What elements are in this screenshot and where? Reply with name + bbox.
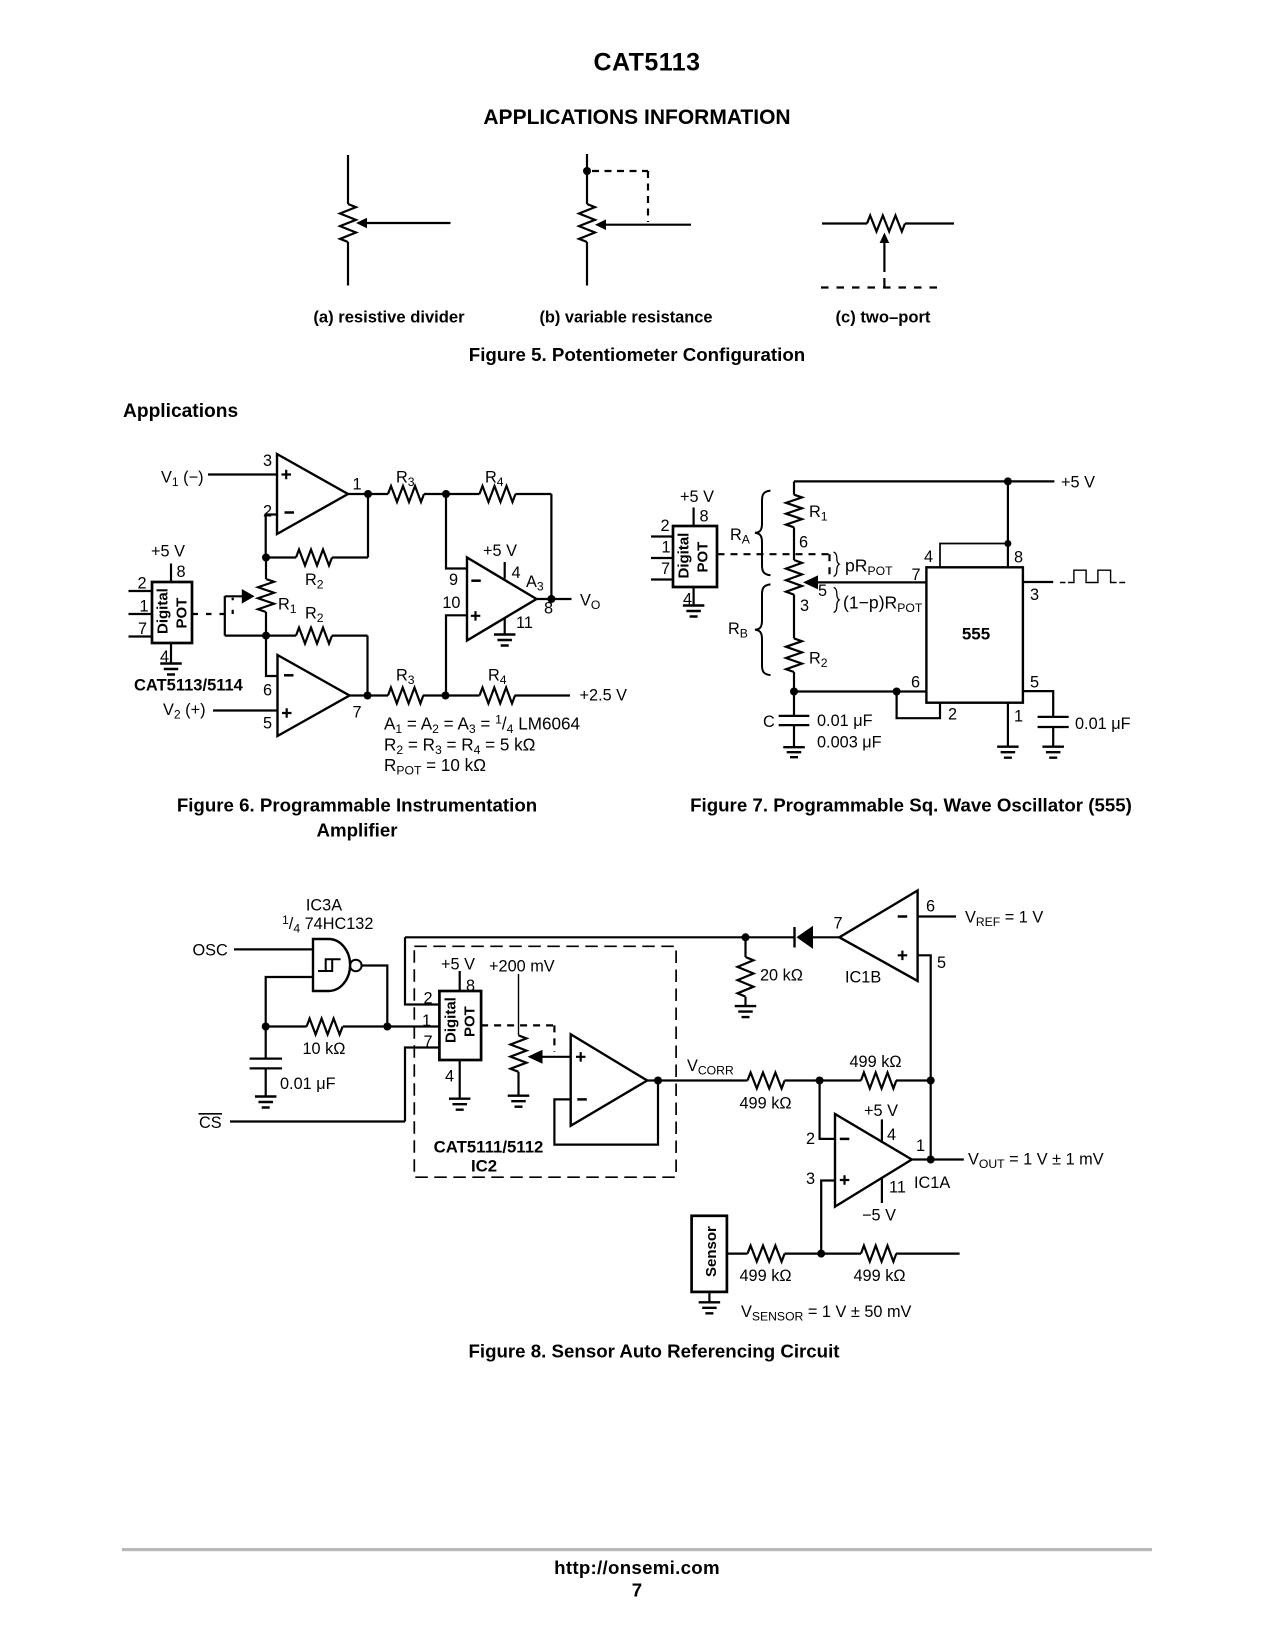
- ground below A3: [494, 635, 516, 646]
- op-amp IC2: [571, 1034, 648, 1126]
- svg-text:+2.5 V: +2.5 V: [580, 687, 628, 705]
- overline CS: [199, 1113, 223, 1115]
- svg-text:V1 (−): V1 (−): [161, 469, 204, 490]
- svg-text:3: 3: [263, 452, 272, 470]
- wire +200mV pot to ground: [517, 1072, 519, 1096]
- svg-text:11: 11: [516, 614, 533, 632]
- svg-text:5: 5: [1030, 674, 1039, 692]
- op-amp A3 minus input symbol: [471, 579, 481, 582]
- svg-text:Figure 6. Programmable Instrum: Figure 6. Programmable Instrumentation: [177, 795, 537, 816]
- resistor 10k body: [307, 1019, 343, 1035]
- wire R2 to bottom node: [793, 672, 795, 692]
- wire (b) dashed feedback horizontal: [592, 170, 648, 172]
- svg-text:5: 5: [937, 954, 946, 972]
- op-amp IC2 minus input symbol: [577, 1098, 587, 1101]
- svg-text:499 kΩ: 499 kΩ: [854, 1267, 906, 1285]
- svg-text:R1: R1: [809, 503, 828, 524]
- digital pot U2 pin 4 lead: [692, 587, 694, 606]
- bracket pRPOT: [834, 552, 840, 577]
- svg-text:2: 2: [806, 1130, 815, 1148]
- svg-text:7: 7: [912, 566, 921, 584]
- op-amp A1: [277, 454, 348, 534]
- digital pot U2 pin 2 stub: [651, 535, 673, 537]
- digital pot U1 pin 7 stub: [129, 635, 153, 637]
- svg-text:APPLICATIONS INFORMATION: APPLICATIONS INFORMATION: [483, 106, 790, 129]
- resistor R1 body: [258, 579, 274, 612]
- ground below digital pot U2: [683, 606, 705, 617]
- svg-text:Figure 7. Programmable Sq. Wav: Figure 7. Programmable Sq. Wave Oscillat…: [690, 795, 1132, 816]
- wire RPOT to R2: [793, 595, 795, 639]
- wire (a) bottom lead: [347, 242, 349, 286]
- wire wiper bracket top: [225, 595, 243, 597]
- svg-text:1: 1: [353, 476, 362, 494]
- wire A3 inverting feed: [446, 494, 467, 569]
- wire node to R4 bottom: [446, 694, 480, 696]
- diode cathode bar: [793, 927, 795, 948]
- svg-text:0.01 μF: 0.01 μF: [817, 712, 873, 730]
- digital pot U2 pin 7 stub: [651, 578, 673, 580]
- resistor R4 bottom body: [480, 688, 516, 704]
- svg-text:+5 V: +5 V: [483, 542, 517, 560]
- ground below filter cap: [255, 1097, 277, 1108]
- svg-text:0.01 μF: 0.01 μF: [280, 1075, 336, 1093]
- wire R1 to wiper node: [793, 527, 795, 560]
- svg-text:1: 1: [140, 598, 149, 616]
- svg-text:3: 3: [806, 1170, 815, 1188]
- resistor 499k sensor feedback body: [861, 1246, 896, 1262]
- arrowhead wiper into RPOT: [803, 575, 818, 589]
- wire feedback row right: [343, 1025, 440, 1027]
- svg-text:+5 V: +5 V: [864, 1102, 898, 1120]
- wire (a) top lead: [347, 155, 349, 204]
- wire 555 pin 1 ground lead: [1007, 703, 1009, 747]
- svg-text:IC1B: IC1B: [845, 969, 881, 987]
- svg-text:RA: RA: [730, 526, 751, 547]
- svg-text:6: 6: [263, 682, 272, 700]
- op-amp IC1A pin 11 lead: [881, 1178, 883, 1203]
- svg-text:POT: POT: [462, 1006, 479, 1037]
- svg-text:7: 7: [423, 1033, 432, 1051]
- svg-text:7: 7: [661, 560, 670, 578]
- svg-text:CAT5111/5112: CAT5111/5112: [434, 1138, 544, 1157]
- wire R4 feedback down to A3 output: [550, 494, 552, 599]
- svg-text:6: 6: [799, 534, 808, 552]
- op-amp IC1B minus input symbol: [898, 915, 908, 918]
- svg-text:5: 5: [263, 715, 272, 733]
- svg-text:A1 = A2 = A3 = 1/4 LM6064: A1 = A2 = A3 = 1/4 LM6064: [384, 713, 580, 737]
- node A3 output dot: [547, 595, 555, 603]
- wire wiper to IC2 opamp: [541, 1056, 571, 1058]
- svg-text:RB: RB: [728, 620, 748, 641]
- op-amp A3 pin 4 supply lead: [504, 562, 506, 579]
- resistor (b) potentiometer body: [579, 204, 595, 242]
- svg-text:555: 555: [962, 625, 990, 644]
- svg-text:Sensor: Sensor: [703, 1226, 720, 1277]
- ground below timing cap: [783, 747, 805, 757]
- svg-text:499 kΩ: 499 kΩ: [740, 1095, 792, 1113]
- op-amp IC1A minus input symbol: [840, 1138, 850, 1141]
- wire 555 pin 6: [794, 690, 926, 692]
- ground below 20k: [735, 1006, 757, 1017]
- svg-text:Amplifier: Amplifier: [317, 820, 398, 841]
- wire IC1B pin 5: [918, 955, 931, 1080]
- wire wiper bracket bottom: [225, 634, 266, 636]
- node R1 top junction: [262, 554, 270, 562]
- node R3/R4 junction: [442, 490, 450, 498]
- digital pot U1 pin 4 lead: [170, 643, 172, 664]
- node feedback right junction: [383, 1023, 391, 1031]
- resistor R3 bottom body: [388, 688, 423, 704]
- resistor R2 fig7 body: [786, 638, 802, 672]
- svg-text:A3: A3: [526, 573, 544, 594]
- svg-text:V2 (+): V2 (+): [163, 701, 206, 722]
- svg-text:0.01 μF: 0.01 μF: [1075, 715, 1131, 733]
- svg-text:R1: R1: [278, 596, 297, 617]
- op-amp A3 plus input symbol: [471, 611, 481, 621]
- wire CS input: [230, 1120, 405, 1122]
- digital pot U3 pin 4 lead: [459, 1060, 461, 1099]
- svg-text:R2: R2: [305, 571, 324, 592]
- wire R3 bottom to node: [423, 694, 446, 696]
- wire R3 to node: [424, 493, 446, 495]
- digital pot U1 pin 8 lead: [170, 564, 172, 583]
- svg-text:1: 1: [1014, 708, 1023, 726]
- svg-text:3: 3: [1030, 586, 1039, 604]
- wire nand output: [362, 966, 388, 1027]
- wire A3 output: [537, 598, 572, 600]
- wire dashed wiper drop fig7: [828, 554, 830, 579]
- wire 499k to node: [785, 1079, 862, 1081]
- svg-text:R3: R3: [396, 667, 415, 688]
- nand gate IC3A body: [313, 939, 350, 991]
- svg-text:6: 6: [926, 898, 935, 916]
- schmitt trigger symbol: [318, 958, 341, 972]
- svg-text:(b) variable resistance: (b) variable resistance: [539, 309, 712, 327]
- svg-text:499 kΩ: 499 kΩ: [740, 1267, 792, 1285]
- ground below 555 pin 1: [997, 747, 1019, 758]
- svg-text:IC1A: IC1A: [914, 1174, 950, 1192]
- node (b) junction dot: [583, 167, 591, 175]
- wire 555 pin 4 hook: [940, 544, 1008, 568]
- svg-text:1: 1: [662, 539, 671, 557]
- wire bottom R2 row: [266, 634, 296, 636]
- svg-text:8: 8: [177, 563, 186, 581]
- dashed box CAT5111/5112 IC2: [414, 946, 676, 1177]
- svg-text:+5 V: +5 V: [1061, 474, 1095, 492]
- resistor (a) potentiometer body: [340, 204, 356, 242]
- node pin6/pin2 junction: [893, 688, 901, 696]
- svg-text:Digital: Digital: [443, 997, 460, 1043]
- svg-text:3: 3: [800, 597, 809, 615]
- digital pot U1 pin 2 stub: [129, 590, 153, 592]
- wire R3 top row: [368, 493, 388, 495]
- svg-text:http://onsemi.com: http://onsemi.com: [554, 1557, 720, 1578]
- wire 555 pin 8 supply: [1007, 481, 1009, 567]
- wire sensor output: [727, 1252, 748, 1254]
- node bottom left junction: [790, 688, 798, 696]
- arrowhead (b) wiper arrow: [595, 219, 606, 230]
- wire IC1A non-inverting feed: [821, 1181, 835, 1254]
- arrowhead wiper into R1: [242, 589, 255, 604]
- wire 499k feedback to node: [896, 1079, 931, 1081]
- wire 555 pin 5: [1023, 691, 1053, 717]
- resistor +200mV pot body: [511, 1035, 527, 1071]
- ground below bypass cap: [1042, 747, 1064, 758]
- svg-text:CS: CS: [199, 1114, 222, 1132]
- node feedback left junction: [262, 1023, 270, 1031]
- wire A1 output to R2 feedback: [367, 494, 369, 558]
- diode body: [797, 926, 814, 949]
- svg-text:10: 10: [442, 594, 460, 612]
- arrowhead (a) wiper arrow: [356, 218, 367, 228]
- svg-text:CAT5113: CAT5113: [594, 49, 701, 77]
- wire (c) dashed bottom port: [821, 286, 944, 288]
- svg-text:VCORR: VCORR: [687, 1057, 734, 1078]
- node rail to 20k junction: [742, 933, 750, 941]
- svg-text:1/4 74HC132: 1/4 74HC132: [282, 913, 373, 936]
- resistor R2 bottom body: [296, 628, 332, 644]
- op-amp IC1A pin 4 lead: [881, 1119, 883, 1143]
- wire wiper bracket vertical: [224, 596, 226, 636]
- digital pot U3 body: [439, 991, 481, 1060]
- svg-text:CAT5113/5114: CAT5113/5114: [134, 677, 244, 695]
- wire rail down to R1: [793, 481, 795, 494]
- op-amp IC1A plus input symbol: [840, 1175, 850, 1185]
- ground below digital pot U1: [160, 664, 182, 675]
- wire A1 output: [348, 493, 368, 495]
- svg-text:1: 1: [916, 1137, 925, 1155]
- wire 20k to ground: [744, 997, 746, 1006]
- svg-text:Applications: Applications: [123, 401, 238, 422]
- svg-text:Figure 8. Sensor Auto Referenc: Figure 8. Sensor Auto Referencing Circui…: [468, 1341, 839, 1362]
- wire node to R1 top: [265, 558, 267, 580]
- svg-text:Digital: Digital: [155, 588, 172, 634]
- node A1 output dot: [364, 490, 372, 498]
- wire A3 non-inverting feed: [446, 615, 467, 695]
- svg-text:7: 7: [632, 1580, 642, 1601]
- svg-text:(a) resistive divider: (a) resistive divider: [313, 308, 465, 327]
- digital pot U1 body: [152, 582, 192, 643]
- wire dashed wiper control fig8: [481, 1024, 554, 1026]
- capacitor C plates: [779, 716, 810, 725]
- wire rail to diode: [746, 936, 795, 938]
- wire R4 bottom to +2.5V: [515, 694, 571, 696]
- svg-text:4: 4: [445, 1068, 454, 1086]
- svg-text:VSENSOR = 1 V ± 50 mV: VSENSOR = 1 V ± 50 mV: [741, 1303, 912, 1324]
- wire IC2 output: [647, 1079, 747, 1081]
- svg-text:pRPOT: pRPOT: [845, 556, 893, 579]
- svg-text:4: 4: [924, 548, 933, 566]
- op-amp IC2 plus input symbol: [576, 1052, 586, 1062]
- ground below digital pot U3: [449, 1099, 471, 1110]
- wire 555 pin 3 output: [1023, 581, 1053, 583]
- resistor R2 top body: [296, 550, 332, 566]
- svg-text:+200 mV: +200 mV: [489, 958, 555, 976]
- wire 555 pin 2 hook: [897, 692, 940, 719]
- wire filter cap to ground: [265, 1068, 267, 1096]
- wire dashed wiper control fig7: [718, 553, 830, 555]
- wire V2 input: [213, 709, 278, 711]
- wire (c) left lead: [822, 222, 867, 224]
- wire (b) dashed feedback vertical: [647, 171, 649, 222]
- svg-text:9: 9: [449, 571, 458, 589]
- bracket (1-p)RPOT: [834, 587, 840, 612]
- wire top R2 feedback row: [266, 556, 296, 558]
- wire (b) top lead: [586, 154, 588, 204]
- svg-text:6: 6: [911, 674, 920, 692]
- svg-text:2: 2: [423, 990, 432, 1008]
- wire IC1B pin 6 output: [918, 915, 956, 917]
- resistor RPOT body: [786, 560, 802, 595]
- node top rail junction: [1004, 477, 1012, 485]
- wire (a) wiper lead: [364, 222, 451, 224]
- op-amp A1 plus input symbol: [282, 470, 292, 480]
- svg-text:VO: VO: [580, 592, 600, 613]
- svg-text:+5 V: +5 V: [151, 543, 185, 561]
- wire (b) wiper lead: [603, 224, 691, 226]
- wire A2 output: [350, 694, 368, 696]
- op-amp A3: [467, 558, 537, 641]
- sensor box: [692, 1216, 727, 1292]
- wire IC1A output: [912, 1158, 964, 1160]
- svg-text:4: 4: [512, 564, 521, 582]
- digital pot U1 pin 1 stub: [129, 613, 153, 615]
- op-amp A3 pin 11 lead: [504, 618, 506, 635]
- svg-text:7: 7: [138, 620, 147, 638]
- wire IC1A inverting feed: [820, 1081, 835, 1139]
- svg-text:499 kΩ: 499 kΩ: [850, 1053, 902, 1071]
- svg-text:IC2: IC2: [471, 1157, 497, 1176]
- wire R1 bottom: [265, 612, 267, 636]
- resistor 20k body: [738, 957, 754, 997]
- svg-text:R2: R2: [305, 605, 324, 626]
- arrowhead wiper into +200mV pot: [528, 1050, 543, 1064]
- svg-text:R2: R2: [809, 650, 828, 671]
- capacitor 0.01uF filter plates: [250, 1059, 282, 1069]
- svg-text:2: 2: [948, 706, 957, 724]
- svg-text:4: 4: [887, 1126, 896, 1144]
- node feedback/pin5 junction: [927, 1077, 935, 1085]
- svg-text:1: 1: [422, 1012, 431, 1030]
- resistor (c) body: [867, 216, 905, 232]
- footer rule: [122, 1548, 1152, 1551]
- op-amp A1 minus input symbol: [285, 511, 295, 514]
- resistor R4 top body: [480, 486, 516, 502]
- op-amp IC1A: [835, 1114, 912, 1207]
- wire node down to output: [930, 1081, 932, 1160]
- svg-text:11: 11: [889, 1179, 906, 1197]
- svg-text:VREF = 1 V: VREF = 1 V: [965, 909, 1043, 930]
- op-amp IC1B plus input symbol: [898, 951, 908, 961]
- wire OSC input: [234, 948, 313, 950]
- svg-text:VOUT = 1 V ± 1 mV: VOUT = 1 V ± 1 mV: [968, 1151, 1104, 1172]
- svg-text:+5 V: +5 V: [441, 956, 475, 974]
- ground below sensor: [699, 1302, 721, 1313]
- capacitor bypass 0.01uF plates: [1038, 717, 1069, 727]
- op-amp IC1B left-pointing: [839, 891, 917, 981]
- svg-text:C: C: [763, 713, 775, 731]
- resistor 499k sensor body: [748, 1246, 785, 1262]
- wire R1 node down to A2 inverting: [266, 636, 278, 676]
- svg-text:7: 7: [834, 915, 843, 933]
- wire R2 bottom right: [332, 634, 368, 636]
- wire diode to IC1B apex: [813, 936, 839, 938]
- svg-text:R4: R4: [488, 667, 507, 688]
- node pin4/pin8 junction: [1004, 540, 1011, 547]
- svg-text:(1−p)RPOT: (1−p)RPOT: [843, 593, 923, 616]
- svg-text:POT: POT: [174, 598, 191, 629]
- svg-text:7: 7: [353, 704, 362, 722]
- brace RB: [755, 584, 771, 675]
- svg-text:8: 8: [1014, 549, 1023, 567]
- digital pot U2 body: [673, 526, 717, 587]
- IC 555 body: [926, 567, 1023, 702]
- op-amp A2 plus input symbol: [282, 708, 292, 718]
- wire filter cap lead: [265, 1027, 267, 1059]
- wire V1 input: [208, 473, 277, 475]
- wire dashed wiper control: [193, 613, 227, 615]
- wire 20k lead: [744, 937, 746, 957]
- svg-text:10 kΩ: 10 kΩ: [303, 1040, 346, 1058]
- svg-text:R3: R3: [396, 469, 415, 490]
- svg-text:+5 V: +5 V: [680, 488, 714, 506]
- wire +200mV source lead: [518, 974, 520, 1036]
- svg-text:OSC: OSC: [193, 942, 229, 960]
- svg-text:RPOT = 10 kΩ: RPOT = 10 kΩ: [384, 756, 486, 778]
- svg-text:2: 2: [661, 517, 670, 535]
- wire wiper to 555 pin 7: [816, 581, 926, 583]
- node sensor row junction: [817, 1250, 825, 1258]
- svg-text:2: 2: [263, 503, 272, 521]
- resistor R3 top body: [388, 486, 424, 502]
- resistor R1 fig7 body: [786, 495, 802, 528]
- arrowhead (c) wiper arrow: [880, 233, 890, 244]
- svg-text:5: 5: [818, 582, 827, 600]
- node IC2 output dot: [654, 1077, 662, 1085]
- wire sensor to ground: [708, 1292, 710, 1302]
- wire IC2 feedback loop: [554, 1081, 658, 1145]
- wire pot pin 2 rail riser: [405, 937, 439, 1004]
- svg-text:20 kΩ: 20 kΩ: [760, 967, 803, 985]
- op-amp A2 minus input symbol: [284, 674, 294, 677]
- wire timing cap lead: [793, 692, 795, 716]
- wire (b) bottom lead: [586, 242, 588, 286]
- op-amp A2: [278, 655, 350, 736]
- wire sensor row to node: [785, 1252, 862, 1254]
- svg-text:Digital: Digital: [676, 533, 693, 579]
- resistor 499k feedback body: [861, 1073, 896, 1089]
- wire R2 bottom down to A2 output: [366, 636, 368, 696]
- wire (c) wiper dash: [883, 278, 885, 288]
- svg-text:Figure 5. Potentiometer Config: Figure 5. Potentiometer Configuration: [469, 344, 805, 365]
- digital pot U2 pin 8 lead: [692, 508, 694, 527]
- svg-text:2: 2: [138, 575, 147, 593]
- svg-text:8: 8: [544, 600, 553, 618]
- wire bypass cap to ground: [1052, 727, 1054, 747]
- resistor 499k input body: [748, 1073, 785, 1089]
- digital pot U3 pin 8 lead: [459, 971, 461, 991]
- brace RA: [755, 491, 771, 576]
- wire (c) wiper shaft: [883, 241, 885, 272]
- svg-text:R2 = R3 = R4 = 5 kΩ: R2 = R3 = R4 = 5 kΩ: [384, 736, 536, 758]
- wire top reference rail: [405, 936, 746, 938]
- wire sensor row right: [896, 1252, 960, 1254]
- node A2 output dot: [364, 692, 372, 700]
- wire dashed wiper riser: [232, 598, 234, 614]
- svg-text:0.003 μF: 0.003 μF: [817, 734, 882, 752]
- wire node to R4 top: [446, 493, 480, 495]
- wire A1 inverting input: [266, 515, 277, 558]
